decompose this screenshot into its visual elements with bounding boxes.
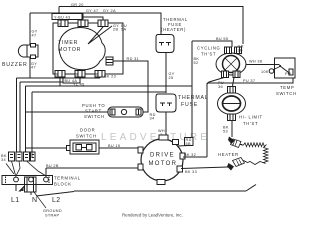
wire YL 45 xyxy=(26,77,193,153)
svg-text:B: B xyxy=(56,73,59,77)
label Y-BU 43 box xyxy=(52,14,82,20)
wire motor top xyxy=(165,112,167,135)
svg-text:36: 36 xyxy=(218,85,223,89)
svg-text:B: B xyxy=(76,73,79,77)
wire BK32 xyxy=(183,156,207,158)
svg-text:N: N xyxy=(32,197,37,204)
wire fuse1 to junction xyxy=(165,53,167,94)
motor right upper tab xyxy=(180,153,185,159)
wire BK52 vertical xyxy=(191,41,193,139)
svg-text:53: 53 xyxy=(223,129,228,133)
hi-limit thermostat xyxy=(218,87,246,121)
svg-text:BUZZER: BUZZER xyxy=(2,62,28,68)
svg-text:BU 2B: BU 2B xyxy=(46,164,59,168)
timer motor body xyxy=(59,28,105,70)
wire RD to push-to-start xyxy=(113,61,148,112)
thermal fuse 2 xyxy=(156,94,176,112)
motor top tab xyxy=(159,135,168,140)
svg-text:STRAP: STRAP xyxy=(45,214,60,218)
svg-text:TH'ST: TH'ST xyxy=(201,52,216,57)
svg-text:TERMINAL: TERMINAL xyxy=(54,176,81,181)
drive motor xyxy=(141,139,183,181)
timer box xyxy=(53,23,123,74)
wire RD5B to motor xyxy=(178,145,188,148)
svg-text:RD 31: RD 31 xyxy=(127,57,140,61)
svg-text:25: 25 xyxy=(169,76,174,80)
svg-text:THERMAL: THERMAL xyxy=(178,95,208,101)
wires into terminal block xyxy=(6,152,46,177)
timer bottom terminal 3 xyxy=(95,71,105,78)
timer top terminal 2 xyxy=(78,20,88,27)
svg-text:SWITCH: SWITCH xyxy=(76,134,97,139)
svg-text:2B: 2B xyxy=(238,48,243,52)
svg-text:47: 47 xyxy=(32,34,37,38)
svg-text:YL 45: YL 45 xyxy=(73,82,85,86)
push to start switch xyxy=(108,107,143,117)
wire BK 23 xyxy=(17,77,101,153)
wire BK33 xyxy=(181,167,228,169)
svg-text:GY 2A: GY 2A xyxy=(103,9,116,13)
motor left upper tab xyxy=(138,147,143,153)
svg-text:B: B xyxy=(96,73,99,77)
motor bottom tab xyxy=(157,180,165,185)
door switch xyxy=(67,140,100,154)
ground strap xyxy=(25,177,37,192)
svg-text:LEADVENTURE: LEADVENTURE xyxy=(101,132,210,143)
svg-text:(HEATER): (HEATER) xyxy=(161,27,186,32)
wire from label to timer xyxy=(82,17,103,23)
svg-text:CYCLING: CYCLING xyxy=(197,46,221,51)
terminal block xyxy=(2,176,53,185)
wire long y92 to thermal fuse xyxy=(32,92,166,152)
svg-text:BK 32: BK 32 xyxy=(184,153,196,157)
svg-text:TH'ST: TH'ST xyxy=(243,121,258,126)
svg-text:PUSH TO: PUSH TO xyxy=(82,103,105,108)
svg-text:DOOR: DOOR xyxy=(80,128,95,133)
label RD 5B xyxy=(185,138,194,146)
ground strap label xyxy=(34,192,46,208)
timer top terminal 1 xyxy=(58,20,68,27)
svg-text:DRIVE: DRIVE xyxy=(150,153,175,159)
svg-text:HI- LIMIT: HI- LIMIT xyxy=(239,115,263,120)
heater bottom connector xyxy=(227,163,234,171)
timer bottom terminal 2 xyxy=(75,71,85,78)
svg-text:WH 38: WH 38 xyxy=(249,60,262,64)
svg-text:SWITCH: SWITCH xyxy=(276,91,297,96)
svg-text:34: 34 xyxy=(150,117,155,121)
wire PU36 cycling to hi-limit xyxy=(233,78,235,87)
motor right lower tab xyxy=(177,166,183,172)
svg-text:TEMP: TEMP xyxy=(280,85,294,90)
wire PTS left xyxy=(26,111,109,113)
temp switch blade xyxy=(279,65,281,67)
svg-text:47: 47 xyxy=(31,65,36,69)
wire door left xyxy=(26,147,67,149)
left bundle crimps xyxy=(9,152,36,161)
wire WH 38 xyxy=(246,64,280,66)
wire hi-limit to heater xyxy=(231,121,233,138)
buzzer xyxy=(18,44,38,59)
svg-text:34: 34 xyxy=(1,158,6,162)
heater top connector xyxy=(228,137,235,145)
thermal fuse heater xyxy=(156,35,174,53)
motor left lower tab xyxy=(138,164,143,170)
svg-text:GR 20: GR 20 xyxy=(71,3,84,7)
svg-text:BU 15: BU 15 xyxy=(108,144,120,148)
svg-text:Y-BU 43: Y-BU 43 xyxy=(54,16,70,20)
timer right terminal RD xyxy=(106,57,113,65)
svg-text:BU 55: BU 55 xyxy=(216,37,228,41)
buzzer bottom wire xyxy=(29,57,31,78)
svg-text:MOTOR: MOTOR xyxy=(149,161,178,167)
svg-text:HEATER: HEATER xyxy=(218,152,239,157)
svg-text:START: START xyxy=(85,109,102,114)
svg-text:SWITCH: SWITCH xyxy=(84,114,105,119)
timer wiper pointer xyxy=(88,26,112,44)
wire GR 20 top xyxy=(59,7,243,45)
svg-text:5A: 5A xyxy=(121,28,126,32)
motor top-right tab xyxy=(173,140,179,145)
wire BU 55 xyxy=(192,41,232,47)
svg-text:BK 23: BK 23 xyxy=(104,75,116,79)
label BU 4A xyxy=(63,78,80,83)
svg-text:WH: WH xyxy=(158,129,165,133)
svg-text:BLOCK: BLOCK xyxy=(54,182,72,187)
arrow to strap xyxy=(19,186,25,192)
temp switch box xyxy=(275,58,296,78)
svg-text:2B: 2B xyxy=(113,28,118,32)
svg-text:MOTOR: MOTOR xyxy=(58,47,81,53)
wire door right to motor xyxy=(99,147,142,149)
svg-text:10K: 10K xyxy=(261,70,269,74)
bottom long wire xyxy=(36,192,74,197)
svg-text:52: 52 xyxy=(194,61,199,65)
svg-text:Rendered by LeadVenture, Inc.: Rendered by LeadVenture, Inc. xyxy=(122,213,183,218)
wire PU37 from cycling to temp switch xyxy=(207,78,224,85)
timer bottom terminal 1 xyxy=(55,71,65,78)
timer top terminal 3 xyxy=(98,20,108,27)
svg-text:PU 37: PU 37 xyxy=(243,79,255,83)
svg-text:TIMER: TIMER xyxy=(58,40,78,46)
svg-text:GROUND: GROUND xyxy=(43,209,62,213)
wire GY 2A top xyxy=(30,13,161,45)
svg-text:L1: L1 xyxy=(11,197,19,204)
svg-text:FUSE: FUSE xyxy=(181,102,198,108)
heater element zigzag xyxy=(244,143,269,165)
svg-text:L2: L2 xyxy=(52,197,60,204)
10K resistor xyxy=(269,69,274,74)
svg-text:PU: PU xyxy=(285,72,291,76)
wire BU 4A xyxy=(20,77,80,153)
svg-text:BK 33: BK 33 xyxy=(185,170,197,174)
svg-text:G: G xyxy=(59,22,62,26)
svg-text:GY 47: GY 47 xyxy=(86,9,98,13)
